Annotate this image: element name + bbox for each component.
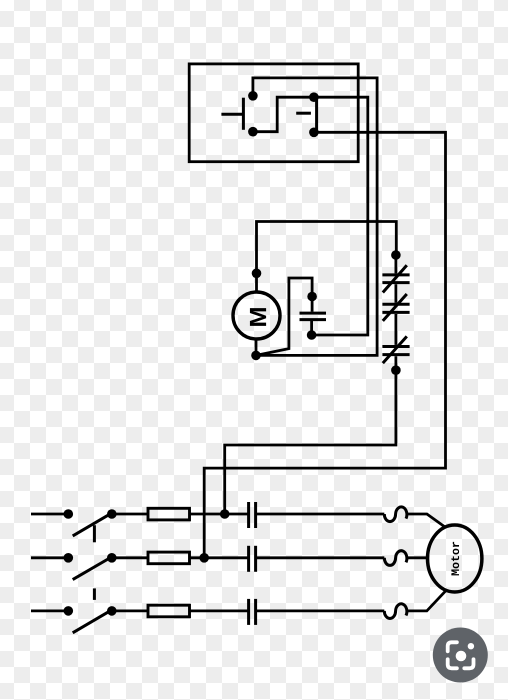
junction L2 control tap: [199, 553, 209, 563]
wire to motor: [407, 556, 428, 559]
wire to motor: [407, 590, 446, 611]
switch blade S1: [73, 514, 110, 536]
wire: [256, 610, 385, 613]
wire: [190, 556, 249, 559]
power line L2: [31, 546, 428, 580]
coil M (contactor coil): [233, 269, 280, 361]
wire to motor: [407, 514, 446, 527]
pushbutton PB2 (start): [296, 92, 319, 137]
node L2 switch left: [64, 553, 74, 563]
wire: [190, 513, 249, 516]
power line L1: [31, 502, 446, 536]
overload heater OL3: [384, 604, 407, 619]
wire L2 lead-in: [31, 556, 68, 559]
node L2 switch right: [107, 553, 117, 563]
pushbutton PB1 (stop): [221, 91, 257, 137]
wire: [112, 513, 148, 516]
aux seal-in contact KA (parallel with start button): [300, 292, 327, 340]
contactor main contact K1: [247, 502, 250, 528]
fuse F2: [148, 552, 190, 564]
wire: [112, 610, 148, 613]
power line L3: [31, 590, 446, 633]
wire: [190, 610, 249, 613]
wire: [256, 556, 385, 559]
wire: [112, 556, 148, 559]
wire: PB1 bottom terminal to PB2 top terminal: [253, 97, 314, 132]
switch blade S3: [73, 611, 110, 633]
wire L3 lead-in: [31, 610, 68, 613]
NC contact chain (3 series break contacts): [382, 250, 409, 375]
wire L1 lead-in: [31, 513, 68, 516]
wire: aux contact top to M coil bottom node: [256, 278, 312, 355]
overload heater OL1: [384, 507, 407, 522]
switch mechanical linkage (dashed): [93, 525, 96, 600]
wire segment C1 to C2: [394, 284, 397, 303]
break contact C2: [382, 294, 409, 321]
switch blade S2: [73, 558, 110, 580]
wire: M coil top to NC contact chain top: [257, 222, 397, 274]
wire: PB1 top terminal to M coil bottom node: [253, 78, 377, 356]
motor Motor: [428, 525, 482, 592]
wire: contact chain bottom to line L1 tap: [225, 370, 396, 514]
junction L1 control tap: [220, 509, 230, 519]
wire: PB2 bottom terminal to line L2 tap: [204, 132, 445, 558]
contactor main contact K3: [247, 599, 250, 625]
node L1 switch right: [107, 509, 117, 519]
wire: PB2 top terminal to aux contact bottom node: [312, 97, 368, 335]
node L1 switch left: [64, 509, 74, 519]
contactor main contact K2: [247, 546, 250, 572]
fuse F3: [148, 605, 190, 617]
node L3 switch right: [107, 606, 117, 616]
wire segment C2 to C3: [394, 314, 397, 345]
break contact C1: [382, 265, 409, 292]
break contact C3: [382, 336, 409, 363]
control box enclosure: [189, 64, 358, 162]
fuse F1: [148, 508, 190, 520]
overload heater OL2: [384, 551, 407, 566]
wire: [256, 513, 385, 516]
node L3 switch left: [64, 606, 74, 616]
Google Lens button: [433, 628, 488, 683]
